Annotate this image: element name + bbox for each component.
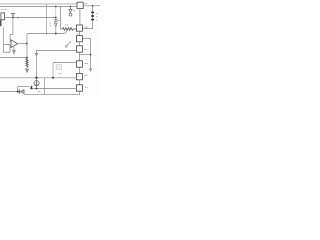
test point TP1 arrow+circle (70, 6, 72, 8)
wire diode link up (18, 86, 30, 88)
node junction dot 2 (17, 17, 18, 18)
resistor box Br1 (76, 25, 82, 31)
label under wire (38, 90, 41, 92)
label right of Br3 (84, 49, 87, 51)
wire column bottom corner (24, 91, 79, 95)
wire rail link at x46.6 (46, 4, 48, 34)
resistor box Br6 (76, 85, 82, 91)
wire long rail y77.8 (0, 77, 76, 79)
wire left feed (0, 20, 2, 27)
resistor box Br3 (76, 46, 82, 52)
current source CS1 (36, 78, 38, 81)
op-amp U1 (11, 40, 18, 48)
label near wire y77.8 (59, 73, 62, 75)
label text top-left (1, 9, 8, 11)
wire riser x59.8 (61, 6, 63, 29)
wire top rail B (0, 5, 77, 7)
wire Br2 to right rail (82, 39, 90, 69)
node junction dot speaker (31, 88, 33, 90)
wire op-amp output (18, 43, 27, 45)
node right rail junction dot (90, 54, 92, 56)
wire top feedback y33.6 (27, 33, 65, 35)
capacitor C1 on x55 (55, 6, 57, 17)
node junction dot on y33.6 (55, 33, 57, 35)
label C1 (57, 20, 59, 22)
ground G1 (11, 13, 15, 17)
wire column seg 1 (78, 31, 80, 35)
wire op-amp minus input (10, 45, 11, 47)
inductor L1 (vertical squiggle) (26, 58, 28, 67)
wiper arrow of P1 (65, 28, 69, 33)
wire link x44.5 (44, 78, 46, 95)
node output junction dot (26, 43, 28, 45)
diode D1 pointing left (18, 90, 20, 94)
switch box B1 top right (77, 2, 83, 8)
label TP1 (73, 10, 76, 12)
resistor box Br2 (76, 36, 82, 42)
resistor box Br4 (76, 61, 82, 67)
variable arrow with circle (65, 45, 67, 47)
label box mid (56, 65, 61, 69)
node junction dot y77.8 a (35, 77, 37, 79)
wire bottom left y91.6 (0, 91, 19, 93)
wire tap y54.6 (79, 54, 90, 56)
arrow electrode down (26, 67, 28, 68)
label right of Br1 (84, 26, 87, 28)
wire column seg 2 (78, 42, 80, 46)
resistor R2 (box under op-amp) (3, 45, 10, 53)
wire op-amp plus input (10, 18, 13, 42)
node junction dot (12, 17, 14, 19)
wire y63 branch (53, 62, 76, 64)
node junction dot under CS1 (36, 88, 38, 90)
node junction dot diode (17, 91, 19, 93)
wire speaker rail y88.6 (32, 88, 77, 90)
wire B1 down to column (79, 9, 81, 25)
node junction dot y77.8 b (52, 77, 54, 79)
label battery value (96, 14, 98, 20)
label above P1 (65, 24, 69, 26)
wire ground rail y57.6 (0, 57, 27, 59)
label right of Br5 (84, 74, 87, 76)
ground arrow under op-amp (13, 46, 15, 50)
arrow ground right rail (89, 68, 93, 72)
node battery junction dot (92, 5, 94, 7)
wire input rail y17.6 (5, 17, 56, 19)
wire battery to column (82, 24, 92, 29)
wire column seg 4 (78, 67, 80, 73)
battery BT1 (92, 6, 94, 24)
label right of B1 (84, 3, 87, 5)
arrow current direction (35, 53, 39, 57)
wire column seg 5 (78, 80, 80, 85)
wire top rail A (0, 3, 77, 5)
diode D2 (30, 86, 32, 89)
node rail junction dot (26, 57, 28, 59)
arrow down on x55 (54, 23, 57, 27)
potentiometer P1 (horizontal zigzag) (63, 28, 77, 31)
resistor R1 (left edge box) (1, 13, 5, 20)
label right of Br4 (84, 62, 88, 64)
wire feedback riser x27 (26, 34, 28, 59)
wire column seg 3 with tap (78, 52, 80, 61)
label under Br1 (77, 33, 79, 35)
wire B1 to right edge (83, 5, 100, 7)
wire mid arrow branch y50.6 (37, 51, 77, 53)
resistor box Br5 (76, 73, 82, 79)
label right of Br6 (85, 86, 88, 88)
